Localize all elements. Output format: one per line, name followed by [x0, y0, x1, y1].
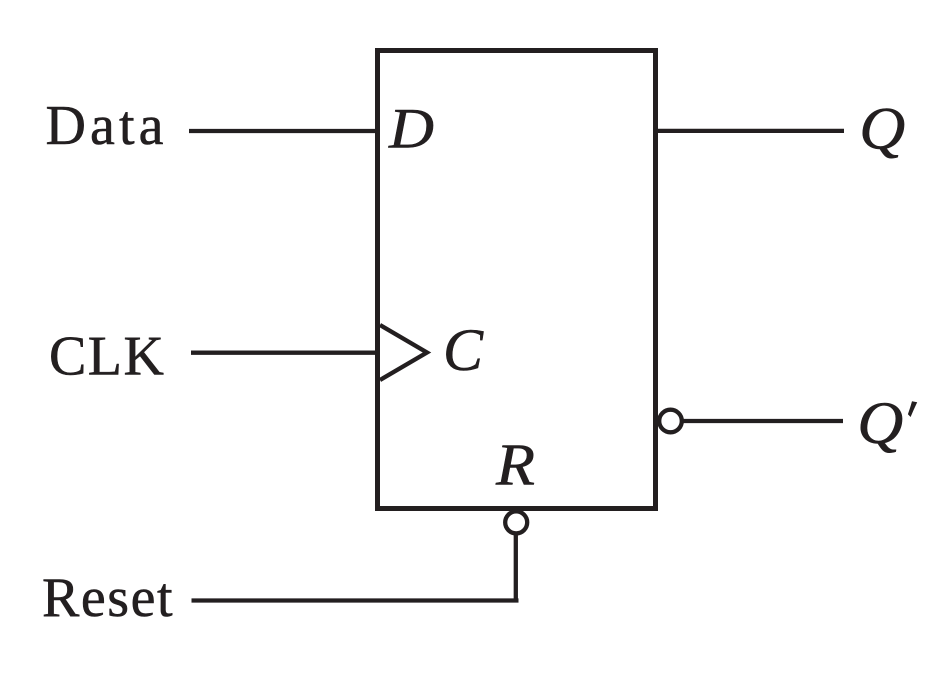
- prime mark of Q': [908, 401, 917, 417]
- inversion bubble R: [505, 511, 527, 533]
- svg-text:Q: Q: [859, 95, 905, 161]
- flip-flop U1 body: [378, 51, 656, 509]
- inversion bubble Q': [659, 410, 682, 433]
- svg-text:CLK: CLK: [49, 326, 165, 388]
- wire Q' output: [684, 419, 844, 423]
- svg-text:Q: Q: [857, 390, 903, 456]
- wire Reset vertical: [514, 534, 518, 601]
- svg-text:C: C: [443, 317, 484, 383]
- wire Q output: [656, 129, 844, 133]
- svg-text:Reset: Reset: [42, 567, 174, 629]
- wire Reset horizontal: [192, 598, 519, 602]
- wire CLK to C: [191, 351, 377, 355]
- clock edge triangle: [380, 325, 427, 380]
- svg-text:Data: Data: [46, 95, 168, 157]
- wire Data to D: [189, 129, 377, 133]
- svg-text:D: D: [388, 98, 434, 161]
- svg-text:R: R: [495, 432, 535, 498]
